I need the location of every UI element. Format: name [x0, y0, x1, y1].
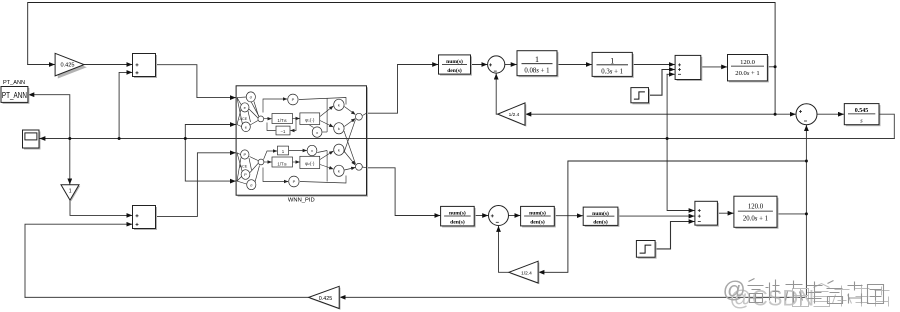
wire gain G5 to sum C2 bottom — [499, 226, 509, 272]
wire node J1 down to gain G2 — [69, 139, 71, 185]
junction node J7 — [805, 160, 808, 163]
junction node J8 — [805, 212, 808, 215]
wnn box one — [278, 146, 289, 155]
junction node J5 — [774, 65, 777, 68]
sum S4 — [695, 201, 719, 226]
wire integrator feedback vertical to sum S3 input3 — [667, 73, 674, 75]
sum A1 — [133, 54, 158, 79]
integrator 0.545/s — [844, 104, 880, 127]
wnn cross diagonals — [344, 131, 356, 164]
wire num4 to sum S4 input2 — [618, 215, 694, 217]
svg-text:P: P — [293, 179, 296, 184]
sum C1 circle — [488, 56, 505, 73]
wnn hub1 — [258, 116, 264, 122]
wnn neuron sigma2 — [247, 180, 256, 190]
wnn sum2 to out2 — [363, 166, 367, 169]
WNN_PID icon drawing — [237, 97, 367, 184]
svg-text:0.545: 0.545 — [855, 108, 869, 114]
junction node J3 — [184, 137, 187, 140]
svg-text:P: P — [244, 172, 247, 177]
wire gain G2 to sum A2 input 1 — [70, 200, 132, 215]
wnn -1 loop top — [291, 119, 297, 131]
svg-text:1: 1 — [69, 189, 72, 195]
svg-text:0.425: 0.425 — [61, 63, 75, 69]
wire sum S3 to TF3 — [701, 66, 727, 68]
svg-text:P: P — [243, 152, 246, 157]
wire sum A2 output to WNN in3 — [156, 153, 236, 217]
wire node J1 to PT_ANN block — [29, 95, 70, 139]
TF3 120.0/(20.0s+1) — [728, 55, 769, 83]
wire WNN out2 to num2 — [367, 168, 440, 216]
wnn neuron D4 — [334, 165, 344, 176]
svg-text:120.0: 120.0 — [748, 204, 764, 211]
wnn box 1/T1s — [272, 114, 293, 124]
svg-text:den(s): den(s) — [593, 219, 608, 226]
wire sum A1 output to WNN in1 — [156, 65, 236, 98]
svg-text:k: k — [338, 103, 340, 108]
svg-text:1/Tis: 1/Tis — [277, 118, 287, 123]
junction node J2 — [118, 137, 121, 140]
wnn sum node s2 — [356, 163, 363, 170]
wire gain G6 output left — [25, 296, 309, 298]
wire bottom feedback line into gain G6 — [340, 296, 806, 298]
TF1 1/(0.08s+1) — [517, 51, 559, 77]
svg-text:k: k — [338, 126, 340, 131]
wire gain G3 to sum C1 bottom — [496, 74, 498, 114]
wire step2 to sum S4 input3 — [655, 222, 694, 249]
wnn small boxes — [272, 113, 320, 169]
wire into gain G1 — [28, 64, 55, 66]
svg-text:den(s): den(s) — [450, 219, 465, 226]
svg-text:WNN_PID: WNN_PID — [288, 198, 315, 204]
wnn circles — [241, 92, 363, 190]
svg-text:0.3s + 1: 0.3s + 1 — [601, 69, 623, 76]
TF2 1/(0.3s+1) — [592, 52, 634, 78]
wnn hub2 — [258, 159, 264, 165]
svg-text:num(s): num(s) — [449, 210, 466, 217]
wire sum S4 to TF4 — [717, 212, 733, 214]
wnn neuron Pb — [289, 176, 299, 187]
wire gain G1 to sum A1 — [84, 64, 132, 66]
svg-text:@: @ — [723, 277, 746, 303]
svg-text:1: 1 — [535, 55, 539, 64]
wnn neuron P2 — [241, 170, 250, 180]
wire num1 to sum C1 — [471, 64, 487, 66]
gain G5 1/2.4 — [509, 261, 540, 284]
svg-text:φ2(·): φ2(·) — [305, 161, 315, 166]
wnn delta to sum bottom — [344, 152, 355, 166]
sum C2 circle — [489, 206, 509, 226]
num1 transfer fcn — [439, 55, 473, 76]
wnn bottom feedback line — [263, 168, 288, 182]
wire WNN out1 to num1 — [367, 65, 438, 114]
wnn neuron xg — [312, 127, 322, 137]
wnn neuron sigma1 — [246, 92, 255, 102]
wire node J3 to WNN in4 — [185, 139, 235, 182]
svg-text:num(s): num(s) — [446, 58, 463, 65]
svg-text:PT_ANN: PT_ANN — [3, 80, 25, 86]
wnn phi2 to delta — [320, 151, 333, 160]
wnn top feedback line — [263, 99, 287, 113]
svg-text:1/Tis: 1/Tis — [277, 161, 287, 166]
wire TF4 output to node J8 — [777, 213, 806, 215]
svg-text:x: x — [316, 130, 318, 135]
step1 block — [631, 88, 650, 105]
gain G3 1/2.4 — [498, 103, 527, 127]
wire num2 to sum C2 — [474, 215, 488, 217]
svg-text:1/2.4: 1/2.4 — [509, 112, 520, 118]
wire TF3 output to node J5 — [767, 66, 775, 68]
wnn neuron Pt — [288, 94, 298, 105]
wire long feedback line to scope (over blocks) — [40, 114, 895, 138]
wnn box1b to x2 circle — [289, 150, 307, 152]
svg-text:k: k — [338, 169, 340, 174]
num2 transfer fcn — [441, 206, 476, 227]
wire sum C1 to TF1 — [505, 64, 517, 66]
sum S3 — [675, 55, 702, 81]
wnn fan lines bottom — [237, 153, 241, 155]
svg-text:20.0s + 1: 20.0s + 1 — [743, 216, 768, 223]
junction node J1 — [68, 137, 71, 140]
svg-text:0.425: 0.425 — [319, 296, 333, 302]
wire bottom-left feedback to sum A2 input 2 — [25, 224, 132, 297]
wnn box 1/T2s — [272, 157, 293, 167]
wnn phi to xg and delta — [320, 106, 333, 117]
svg-text:φ1(·): φ1(·) — [305, 117, 315, 122]
junction node J6 — [774, 113, 777, 116]
scope block — [23, 130, 41, 150]
gain G1 0.425 — [55, 53, 87, 78]
wire feedback to gain G3 — [526, 113, 775, 115]
wnn box phi2 — [300, 156, 320, 168]
svg-text:PT_ANN: PT_ANN — [2, 91, 27, 100]
wnn neuron D3 — [334, 144, 344, 155]
wire integrator feedback vertical — [667, 74, 694, 210]
svg-text:0.08s + 1: 0.08s + 1 — [524, 68, 549, 75]
wire node J6 to sum C3 — [775, 113, 795, 115]
svg-text:ACE: ACE — [240, 117, 248, 121]
wire plant2 output vertical — [805, 125, 807, 297]
svg-text:ACE: ACE — [240, 164, 248, 168]
wire num3 to num4 — [554, 215, 582, 217]
wnn tiny labels — [240, 95, 340, 188]
svg-text:num(s): num(s) — [529, 210, 546, 217]
step2 block — [636, 241, 656, 259]
junction node J4 — [666, 137, 669, 140]
wnn neuron e2 — [242, 122, 251, 132]
wire sum C3 to integrator — [817, 113, 844, 115]
wnn hub to boxes bottom — [264, 151, 278, 160]
wire node J3 to WNN in2 — [185, 125, 235, 139]
subsystem WNN_PID — [236, 86, 368, 197]
TF4 120.0/(20.0s+1) — [734, 196, 779, 229]
wnn delta to sum top — [344, 107, 355, 115]
wnn hub to box top — [264, 118, 272, 120]
num4 transfer fcn — [583, 207, 619, 227]
svg-text:−1: −1 — [281, 129, 286, 134]
wnn neuron D2 — [334, 123, 344, 134]
wire outer top feedback loop — [28, 3, 775, 115]
num3 transfer fcn — [521, 206, 556, 227]
svg-text:k: k — [338, 148, 340, 153]
wnn box -1 — [276, 126, 290, 135]
wnn neuron x2 — [307, 145, 317, 155]
svg-text:x: x — [311, 148, 313, 153]
sum C3 circle — [796, 104, 817, 125]
svg-text:1/2.4: 1/2.4 — [521, 271, 532, 277]
wire sum C2 to num3 — [509, 215, 520, 217]
svg-text:den(s): den(s) — [447, 67, 462, 74]
wnn fan lines top — [237, 96, 247, 99]
svg-text:20.0s + 1: 20.0s + 1 — [735, 70, 759, 77]
block PT_ANN — [1, 87, 29, 104]
wnn neuron P1 — [241, 150, 249, 159]
wnn neuron e1 — [241, 103, 249, 112]
svg-text:den(s): den(s) — [530, 219, 545, 226]
wnn sum node s1 — [356, 113, 363, 120]
sum A2 — [133, 206, 158, 231]
svg-text:1: 1 — [610, 56, 614, 65]
wire step1 to sum S3 input2 — [649, 70, 675, 96]
wire TF2 to sum S3 input1 — [632, 64, 674, 66]
svg-text:120.0: 120.0 — [740, 59, 756, 66]
gain G2 "1" pointing down — [61, 185, 80, 202]
wire sum A1 input 2 from node line — [119, 72, 132, 138]
svg-text:P: P — [292, 97, 295, 102]
wire TF1 to TF2 — [557, 64, 591, 66]
gain G6 0.425 — [309, 286, 341, 310]
wnn sum1 to out1 — [363, 113, 367, 115]
wire feedback to gain G5 — [539, 161, 807, 272]
wnn neuron D1 — [334, 99, 344, 110]
wnn box phi1 — [300, 113, 320, 125]
watermark CSDN overlay — [730, 284, 890, 311]
